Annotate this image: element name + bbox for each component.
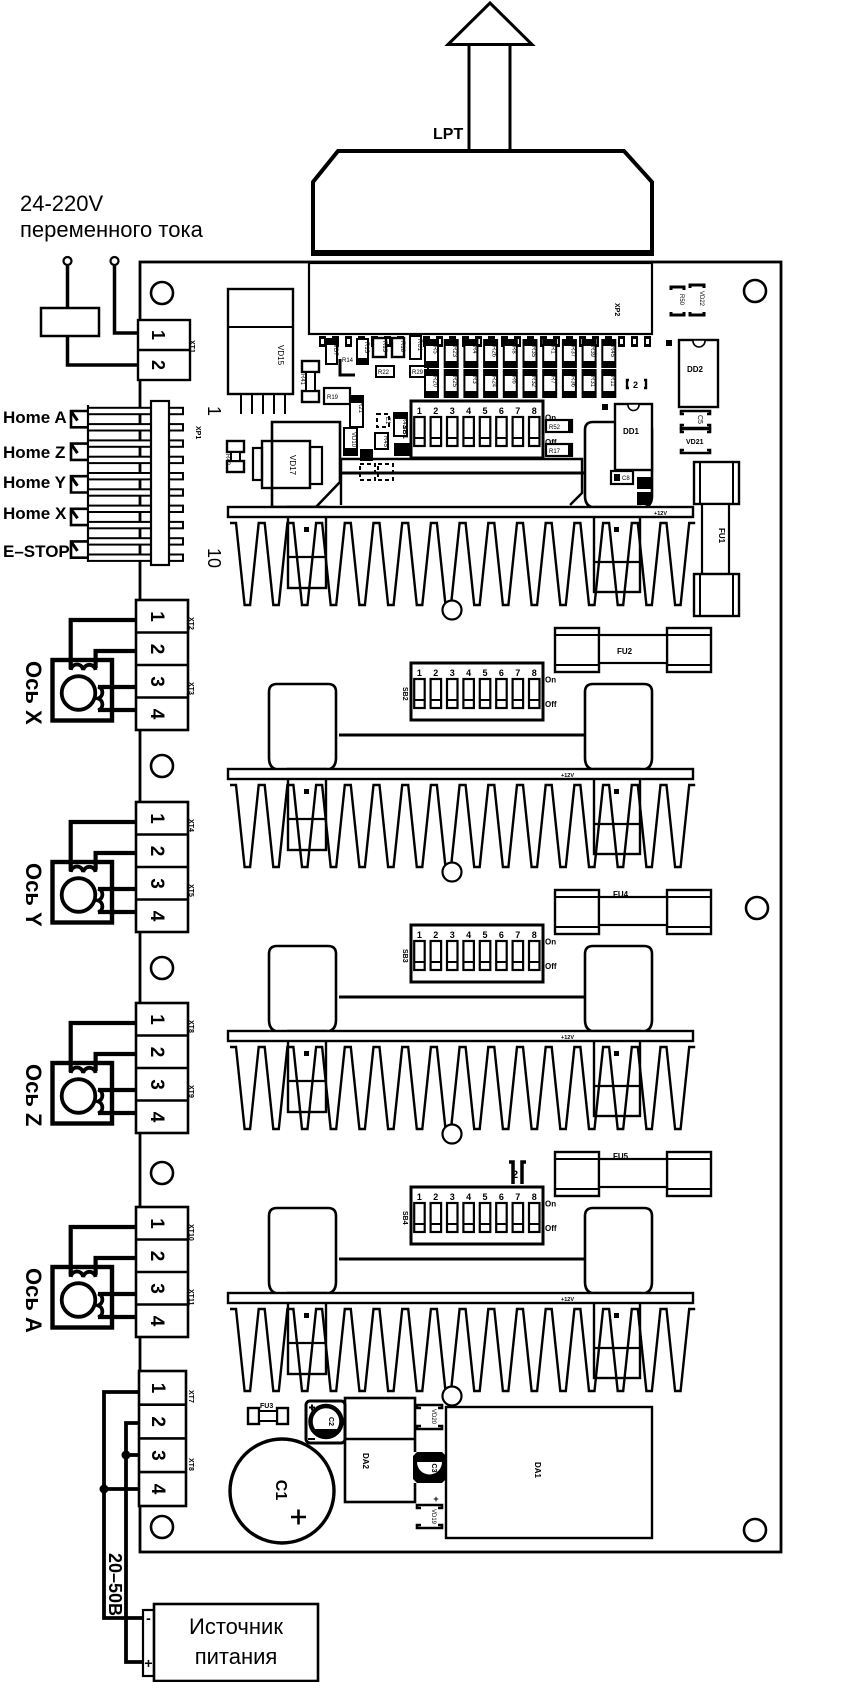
svg-text:XP1: XP1 (194, 426, 201, 439)
junction dot minus (100, 1485, 109, 1494)
motor Ось A winding A (71, 1271, 96, 1277)
svg-text:R42: R42 (224, 454, 230, 466)
svg-text:VD10: VD10 (350, 432, 356, 448)
svg-text:5: 5 (482, 668, 487, 678)
svg-text:XT1: XT1 (188, 340, 195, 353)
svg-text:On: On (545, 938, 556, 947)
resistor R45 (602, 340, 615, 367)
svg-text:R20: R20 (432, 376, 438, 388)
bridge rectifier VD15 (228, 289, 293, 394)
svg-text:E–STOP: E–STOP (3, 542, 70, 561)
svg-text:2: 2 (433, 406, 438, 416)
svg-text:1: 1 (417, 668, 422, 678)
Home Y switch (71, 476, 88, 492)
svg-text:8: 8 (532, 406, 537, 416)
svg-text:3: 3 (450, 668, 455, 678)
resistor R42 (227, 441, 244, 452)
svg-text:XT2: XT2 (187, 617, 194, 630)
svg-text:3: 3 (450, 930, 455, 940)
wire minus stub to pin4 (104, 1487, 139, 1491)
svg-text:Ось Y: Ось Y (21, 863, 46, 927)
svg-text:2: 2 (148, 360, 168, 370)
svg-text:R22: R22 (378, 370, 390, 376)
resistor R14 (340, 359, 355, 375)
svg-text:C5: C5 (696, 415, 703, 424)
svg-text:5: 5 (482, 1192, 487, 1202)
svg-text:7: 7 (515, 668, 520, 678)
mounting hole (162,1173) (151, 1162, 173, 1184)
heatsink ch1 hole (443, 601, 462, 620)
resistor R50 (671, 287, 684, 315)
svg-text:R21: R21 (357, 402, 363, 414)
svg-text:4: 4 (146, 709, 167, 720)
heatsink ch1 right mount (594, 507, 640, 592)
junction dot plus (122, 1451, 131, 1460)
module bus wire ch2 (339, 734, 585, 737)
svg-text:LPT: LPT (433, 126, 463, 143)
svg-text:3: 3 (450, 406, 455, 416)
mounting hole (755,1530) (744, 1519, 766, 1541)
svg-text:+: + (433, 1494, 438, 1504)
resistor R35 (524, 340, 537, 367)
svg-text:FU2: FU2 (617, 647, 633, 656)
svg-text:XT11: XT11 (187, 1289, 194, 1305)
svg-text:Home X: Home X (3, 504, 67, 523)
resistor R1 (543, 340, 556, 367)
heatsink ch4 left mount (288, 1293, 326, 1374)
heatsink ch1 (230, 523, 695, 605)
svg-text:SB1: SB1 (401, 425, 408, 439)
svg-text:+12V: +12V (654, 511, 667, 517)
svg-text:C3: C3 (430, 1464, 437, 1473)
wire plus stub to pin3 (126, 1453, 139, 1457)
svg-text:1: 1 (146, 1014, 167, 1025)
stepper motor Ось Y (53, 862, 113, 923)
svg-text:XT10: XT10 (187, 1224, 194, 1241)
mains terminal N (111, 257, 119, 265)
svg-text:VD17: VD17 (288, 455, 297, 476)
svg-text:R1: R1 (550, 346, 556, 354)
svg-text:XT8: XT8 (187, 1458, 194, 1471)
mounting hole (162,766) (151, 755, 173, 777)
resistor R6 (504, 370, 517, 397)
svg-text:1: 1 (204, 406, 224, 416)
capacitor C3 (413, 1452, 446, 1483)
optotriac VD17 (272, 422, 340, 507)
svg-text:C1: C1 (272, 1480, 289, 1501)
svg-text:R23: R23 (451, 346, 457, 358)
E-STOP switch (71, 541, 88, 557)
transistor module right ch3 (585, 946, 652, 1032)
svg-text:Источник: Источник (189, 1614, 283, 1639)
svg-text:R15: R15 (381, 341, 387, 353)
svg-text:R39: R39 (589, 346, 595, 358)
mounting hole (162,293) (151, 282, 173, 304)
svg-text:XP2: XP2 (613, 303, 620, 316)
capacitor C5 (681, 411, 710, 428)
wire mains L to switch to XT1-2 (68, 265, 138, 365)
svg-text:VD22: VD22 (698, 291, 704, 307)
svg-text:R31: R31 (589, 376, 595, 388)
svg-text:1: 1 (146, 1218, 167, 1229)
resistor R5 (425, 340, 438, 367)
heatsink ch3 left mount (288, 1031, 326, 1112)
svg-text:3: 3 (147, 1450, 168, 1461)
diode VD10 (344, 428, 357, 455)
capacitor C6 (360, 449, 373, 461)
terminal block XT2/XT3 (136, 600, 188, 730)
resistor R37 (563, 340, 576, 367)
mounting hole (757,908) (746, 897, 768, 919)
svg-text:5: 5 (482, 406, 487, 416)
resistor R13 (357, 339, 368, 364)
DD1 pin1 mark (602, 404, 608, 410)
Home A switch (71, 411, 88, 427)
XP1 pins 1-10 (88, 408, 183, 414)
svg-text:R14: R14 (342, 358, 354, 364)
svg-text:6: 6 (499, 1192, 504, 1202)
svg-text:R50: R50 (678, 294, 684, 306)
heatsink ch4 hole (443, 1387, 462, 1406)
svg-text:1: 1 (146, 611, 167, 622)
XP2 pin pads row (319, 336, 651, 347)
resistor R3 (464, 370, 477, 397)
svg-text:3: 3 (146, 878, 167, 889)
capacitor C1 (230, 1439, 334, 1543)
svg-text:7: 7 (515, 930, 520, 940)
heatsink ch2 left mount (288, 769, 326, 850)
connector XP2 (309, 263, 652, 334)
capacitor C7 (394, 443, 410, 456)
motor Ось Y winding B (98, 889, 102, 913)
resistor R29 (410, 366, 428, 377)
svg-text:4: 4 (466, 1192, 471, 1202)
heatsink ch3 hole (443, 1125, 462, 1144)
wire plus rail (126, 1423, 143, 1662)
svg-text:2: 2 (146, 846, 167, 857)
svg-text:R7: R7 (550, 376, 556, 384)
svg-text:E1: E1 (384, 417, 390, 425)
svg-text:R35: R35 (530, 346, 536, 358)
fuse FU2 (555, 628, 599, 672)
motor wires Ось Z (71, 1023, 137, 1072)
resistor R43 (394, 413, 407, 436)
switch S1 box (41, 308, 99, 336)
motor Ось Z winding B (98, 1090, 102, 1114)
svg-text:DA2: DA2 (361, 1453, 370, 1470)
svg-text:8: 8 (532, 668, 537, 678)
svg-text:R19: R19 (327, 395, 339, 401)
terminal block XT8/XT9 (136, 1003, 188, 1133)
XP1 connector body (151, 401, 169, 565)
motor Ось Y winding A (71, 866, 96, 872)
svg-text:1: 1 (417, 930, 422, 940)
module bus wire ch4 (339, 1258, 585, 1261)
Home Z switch (71, 444, 88, 460)
svg-text:24-220V: 24-220V (20, 191, 104, 216)
svg-text:2: 2 (147, 1416, 168, 1427)
svg-text:1: 1 (417, 406, 422, 416)
resistor R41 (302, 361, 319, 372)
svg-text:7: 7 (515, 406, 520, 416)
svg-text:6: 6 (499, 406, 504, 416)
svg-text:XT3: XT3 (187, 682, 194, 695)
stepper motor Ось X (53, 660, 113, 721)
resistor R45 (375, 433, 388, 449)
resistor R7 (543, 370, 556, 397)
svg-text:Off: Off (545, 962, 557, 971)
svg-text:R13: R13 (363, 342, 369, 354)
svg-text:2: 2 (146, 1047, 167, 1058)
svg-text:R26: R26 (491, 346, 497, 358)
svg-text:3: 3 (450, 1192, 455, 1202)
capacitor C2 (306, 1401, 345, 1443)
motor wires Ось Y (71, 822, 137, 871)
resistor R26 (484, 340, 497, 367)
resistor R51 (637, 477, 651, 489)
jumper E3 (378, 464, 393, 480)
jumper E2 (360, 464, 375, 480)
module bus wire ch1 (340, 472, 585, 475)
heatsink ch2 hole (443, 863, 462, 882)
resistor R17 (546, 444, 572, 456)
svg-text:Home A: Home A (3, 408, 67, 427)
svg-text:-: - (146, 1610, 151, 1626)
svg-text:XT5: XT5 (187, 884, 194, 897)
VD15 pins (240, 394, 242, 414)
svg-text:2: 2 (633, 380, 638, 390)
diode VD22 (690, 285, 704, 315)
resistor R25 (445, 370, 458, 397)
terminal block XT10/XT11 (136, 1207, 188, 1337)
stepper motor Ось A (53, 1267, 113, 1328)
DIP switch SB4 (411, 1187, 543, 1244)
svg-text:Ось X: Ось X (21, 661, 46, 725)
svg-text:4: 4 (147, 1484, 168, 1495)
svg-text:5: 5 (482, 930, 487, 940)
svg-text:R17: R17 (549, 449, 561, 455)
motor wires Ось X (71, 620, 137, 669)
DIP switch SB1 (411, 401, 543, 458)
driver flat module ch1 (341, 459, 582, 505)
svg-text:R41: R41 (299, 374, 305, 386)
svg-text:7: 7 (515, 1192, 520, 1202)
svg-text:Ось A: Ось A (21, 1268, 46, 1333)
motor Ось A winding B (98, 1294, 102, 1318)
svg-text:RU1: RU1 (416, 339, 422, 352)
motor Ось X winding B (98, 687, 102, 711)
resistor R11 (602, 370, 615, 397)
svg-text:2: 2 (433, 668, 438, 678)
svg-text:FU3: FU3 (260, 1403, 273, 1410)
svg-text:C8: C8 (622, 476, 630, 482)
svg-text:XT4: XT4 (187, 819, 194, 832)
heatsink ch3 (230, 1047, 695, 1129)
svg-text:1: 1 (417, 1192, 422, 1202)
resistor R23 (445, 340, 458, 367)
svg-text:R32: R32 (530, 376, 536, 388)
capacitor C8 (611, 471, 633, 484)
svg-text:XT7: XT7 (187, 1390, 194, 1403)
svg-text:R4: R4 (471, 346, 477, 354)
mains terminal L (64, 257, 72, 265)
heatsink ch2 (230, 785, 695, 867)
svg-text:R3: R3 (471, 376, 477, 384)
terminal block XT4/XT5 (136, 802, 188, 932)
resistor R52 (546, 420, 572, 432)
svg-text:Off: Off (545, 700, 557, 709)
fuse FU1 (694, 462, 739, 504)
svg-text:1: 1 (146, 813, 167, 824)
LPT connector housing (313, 151, 652, 254)
PCB board outline (140, 262, 781, 1552)
svg-text:SB4: SB4 (401, 1211, 408, 1225)
svg-text:VD21: VD21 (686, 439, 704, 446)
resistor R15 (373, 338, 386, 357)
resistor R39 (583, 340, 596, 367)
heatsink ch4 right mount (594, 1293, 640, 1378)
svg-text:XT8: XT8 (187, 1020, 194, 1033)
diode VD7 (326, 339, 337, 364)
driver DA1 (446, 1407, 652, 1538)
svg-text:Off: Off (545, 1224, 557, 1233)
svg-text:8: 8 (532, 930, 537, 940)
svg-text:питания: питания (195, 1644, 278, 1669)
svg-text:10: 10 (204, 548, 224, 568)
svg-text:R16: R16 (399, 341, 405, 353)
svg-text:DD1: DD1 (623, 427, 640, 436)
svg-text:4: 4 (466, 668, 471, 678)
svg-text:4: 4 (146, 1316, 167, 1327)
resistor R19 (324, 388, 350, 404)
resistor R32 (524, 370, 537, 397)
svg-text:R6: R6 (510, 376, 516, 384)
capacitor jumper mark ch4 (509, 1162, 526, 1184)
svg-text:DD2: DD2 (687, 365, 704, 374)
svg-text:R36: R36 (569, 376, 575, 388)
svg-text:R29: R29 (412, 370, 424, 376)
svg-text:3: 3 (146, 676, 167, 687)
svg-text:XT9: XT9 (187, 1085, 194, 1098)
voltage regulator DA2 (345, 1398, 415, 1502)
mounting hole (755,291) (744, 280, 766, 302)
transistor module right ch4 (585, 1208, 652, 1294)
fuse FU5 (555, 1152, 599, 1196)
transistor module right ch1 (585, 422, 652, 508)
svg-text:C2: C2 (327, 1417, 334, 1426)
svg-text:On: On (545, 1200, 556, 1209)
svg-text:3: 3 (146, 1079, 167, 1090)
jumper E1 (377, 414, 389, 427)
Home X switch (71, 509, 88, 525)
svg-text:6: 6 (499, 668, 504, 678)
varistor RU1 (410, 336, 421, 359)
svg-text:Home Y: Home Y (3, 473, 67, 492)
transistor module right ch2 (585, 684, 652, 770)
svg-text:3: 3 (146, 1283, 167, 1294)
power supply box (154, 1604, 318, 1681)
heatsink ch2 right mount (594, 769, 640, 854)
resistor R31 (583, 370, 596, 397)
svg-text:2: 2 (146, 644, 167, 655)
svg-text:+12V: +12V (561, 1035, 574, 1041)
svg-text:SB3: SB3 (401, 949, 408, 963)
jumper mark 2 near DD1 (627, 380, 646, 388)
svg-text:R25: R25 (451, 376, 457, 388)
svg-text:1: 1 (148, 330, 168, 340)
svg-text:FU1: FU1 (717, 528, 726, 544)
svg-text:VD19: VD19 (430, 1509, 436, 1525)
svg-text:+12V: +12V (561, 773, 574, 779)
svg-text:2: 2 (512, 1169, 518, 1181)
heatsink ch3 right mount (594, 1031, 640, 1116)
svg-text:R52: R52 (549, 425, 561, 431)
resistor R24 (484, 370, 497, 397)
svg-text:DA1: DA1 (533, 1462, 542, 1479)
wire mains N to XT1-1 (115, 265, 138, 333)
resistor R21 (350, 396, 363, 427)
svg-text:R11: R11 (609, 376, 615, 387)
motor Ось Z winding A (71, 1067, 96, 1073)
svg-text:R5: R5 (432, 346, 438, 354)
svg-text:R45: R45 (609, 346, 615, 358)
svg-text:4: 4 (466, 406, 471, 416)
stepper motor Ось Z (53, 1063, 113, 1124)
IC DD1 (615, 404, 652, 470)
svg-text:1: 1 (147, 1383, 168, 1394)
svg-text:FU4: FU4 (613, 890, 629, 899)
svg-text:R37: R37 (569, 346, 575, 358)
transistor module left ch4 (269, 1208, 336, 1294)
fuse FU4 (555, 890, 599, 934)
svg-text:+12V: +12V (561, 1297, 574, 1303)
resistor R4 (464, 340, 477, 367)
svg-text:4: 4 (146, 911, 167, 922)
svg-text:+: + (144, 1655, 152, 1671)
module bus wire ch3 (339, 996, 585, 999)
transistor module left ch3 (269, 946, 336, 1032)
svg-text:4: 4 (146, 1112, 167, 1123)
motor wires Ось A (71, 1227, 137, 1276)
svg-text:VD7: VD7 (332, 344, 338, 356)
IC DD2 (679, 340, 718, 407)
resistor R20 (425, 370, 438, 397)
heatsink ch4 (230, 1309, 695, 1391)
LPT cable arrow (469, 44, 510, 152)
DIP switch SB2 (411, 663, 543, 720)
svg-text:2: 2 (433, 1192, 438, 1202)
wire minus rail (104, 1392, 143, 1618)
diode VD20 (417, 1405, 442, 1429)
DD2 pin1 mark (666, 340, 672, 346)
resistor R36 (563, 370, 576, 397)
resistor R8 (504, 340, 517, 367)
svg-text:R24: R24 (491, 376, 497, 388)
svg-text:Ось Z: Ось Z (21, 1064, 46, 1126)
svg-text:8: 8 (532, 1192, 537, 1202)
svg-text:Home Z: Home Z (3, 443, 65, 462)
XP1 pin left bus (87, 405, 89, 562)
resistor R22 (376, 366, 394, 377)
transistor module left ch2 (269, 684, 336, 770)
svg-text:VD20: VD20 (430, 1409, 436, 1425)
diode VD21 (681, 429, 710, 453)
svg-text:2: 2 (146, 1251, 167, 1262)
svg-text:FU5: FU5 (613, 1152, 629, 1161)
power supply connector strip (143, 1610, 154, 1676)
mounting hole (162,968) (151, 957, 173, 979)
svg-text:SB2: SB2 (401, 687, 408, 701)
